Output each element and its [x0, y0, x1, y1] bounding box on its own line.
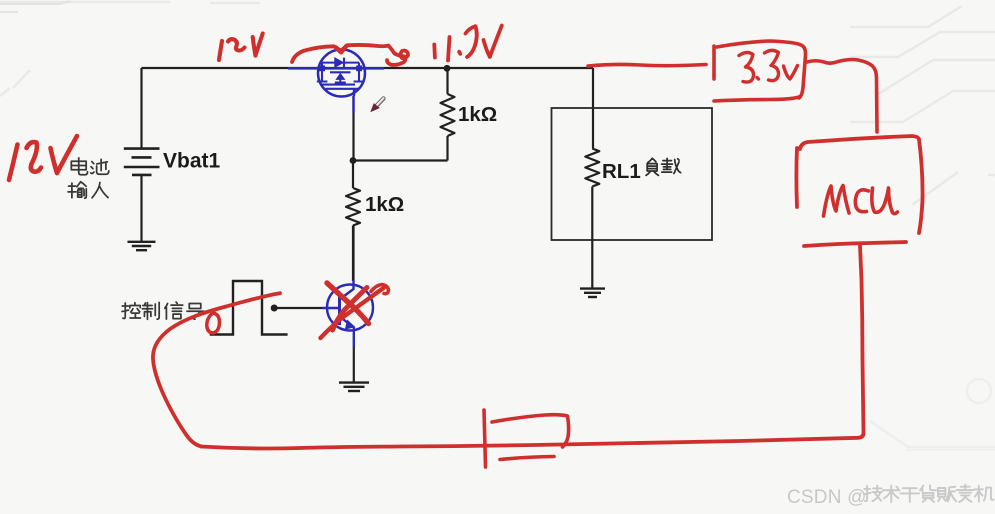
cursor arrow [372, 98, 384, 111]
transistor Q2 pmos [288, 50, 384, 114]
svg-text:Vbat1: Vbat1 [163, 150, 221, 173]
wire pmos drain down [352, 96, 354, 161]
node dot divider [350, 157, 357, 164]
top edge faint streak [0, 1, 70, 12]
red battery symbol bottom [484, 410, 569, 467]
svg-text:1kΩ: 1kΩ [458, 103, 497, 126]
resistor RL1 [585, 149, 599, 289]
node dot base [271, 305, 278, 312]
resistor R2 1k top [441, 69, 455, 161]
red wire 3.3V to mcu [807, 60, 877, 133]
ground emitter [339, 383, 369, 391]
node dot 11.3V net [444, 65, 451, 72]
red annotation 11.3V [401, 26, 502, 61]
red scribble over pmos [292, 45, 405, 65]
wire battery to ground [140, 175, 142, 241]
red X over Q1 [321, 283, 389, 338]
ground RL1 [580, 289, 605, 297]
battery Vbat1 [124, 149, 160, 175]
svg-text:1kΩ: 1kΩ [365, 193, 404, 216]
red annotation 12V top [219, 34, 263, 61]
red wire left big curve [153, 293, 280, 446]
red box 3.3V [714, 41, 806, 101]
red text 3.3v [739, 50, 798, 82]
red wire rail to 3.3V [588, 64, 706, 66]
wire emitter to ground [353, 347, 355, 382]
red wire mcu bottom loop [201, 246, 864, 449]
wire top rail 12V [142, 67, 594, 69]
red text mcu [824, 186, 898, 217]
wire base [274, 307, 322, 309]
transistor Q1 npn [322, 280, 373, 347]
red annotation 12V left [9, 136, 77, 180]
svg-text:CSDN @: CSDN @ [787, 487, 867, 508]
wire mid horizontal [353, 159, 448, 161]
pulse waveform symbol [210, 281, 288, 335]
wire RL1 drop [592, 68, 594, 149]
wire collector [352, 226, 354, 282]
label 12V input annotation (电池/输入) [68, 158, 109, 198]
box RL1 load [552, 108, 713, 240]
label control signal 控制信号 [122, 302, 204, 319]
svg-text:RL1: RL1 [602, 160, 641, 183]
resistor R1 1k lower [346, 161, 360, 282]
red zero annotation [207, 313, 220, 334]
wire battery drop [140, 68, 142, 148]
red box mcu [796, 136, 922, 246]
ground battery [128, 242, 156, 250]
